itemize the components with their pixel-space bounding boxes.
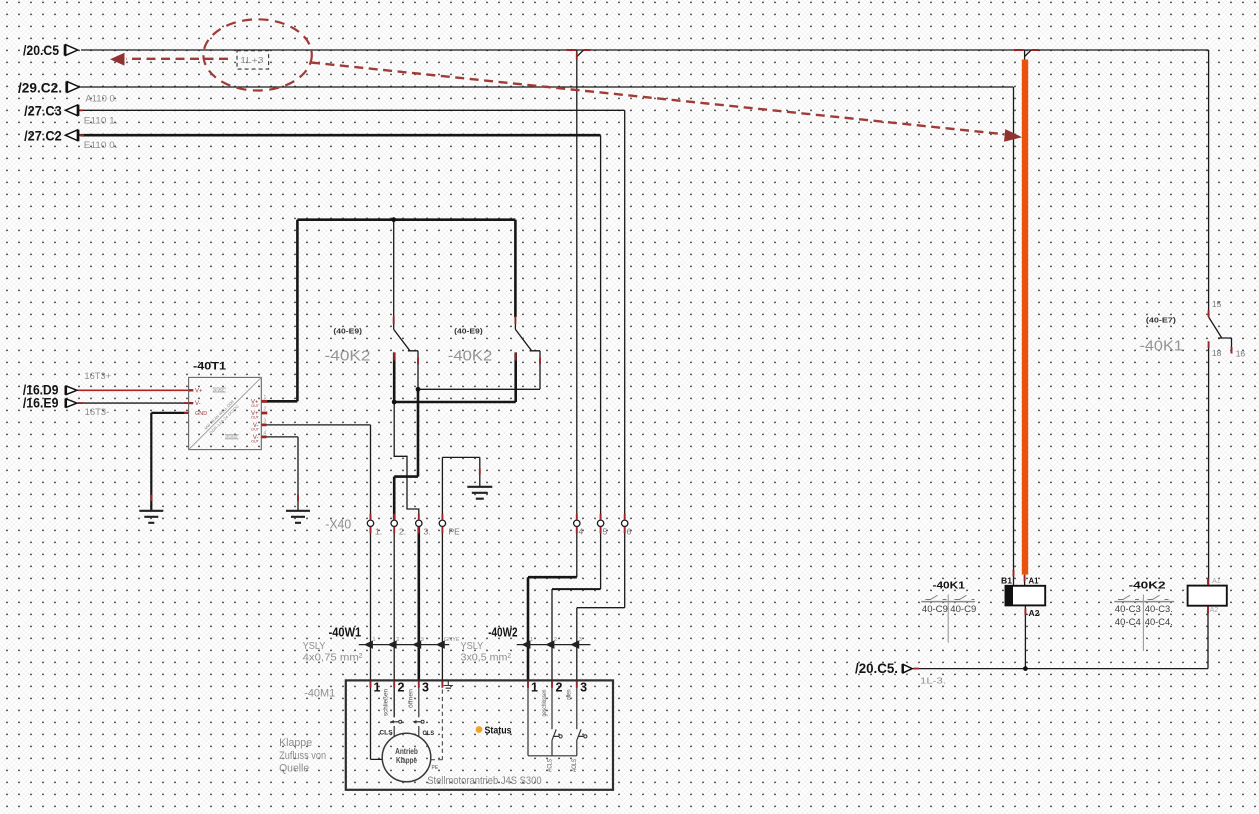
svg-text:16T3-: 16T3- <box>85 407 110 417</box>
svg-text:YSLY: YSLY <box>461 640 484 652</box>
svg-text:-40K2: -40K2 <box>1129 581 1167 592</box>
svg-text:24 VDC: 24 VDC <box>213 388 225 392</box>
svg-text:40-C3: 40-C3 <box>1115 604 1141 614</box>
svg-text:OUT: OUT <box>251 440 260 444</box>
svg-text:Klappe: Klappe <box>396 756 417 765</box>
svg-text:1: 1 <box>264 395 267 401</box>
svg-text:OUT: OUT <box>251 428 260 432</box>
svg-text:-40W1: -40W1 <box>329 626 362 640</box>
svg-text:40-C3.: 40-C3. <box>1145 604 1173 614</box>
svg-text:/27.C2: /27.C2 <box>24 127 62 143</box>
svg-text:A110 0.: A110 0. <box>85 93 117 103</box>
svg-text:Status: Status <box>485 726 512 737</box>
svg-text:YSLY: YSLY <box>303 640 326 652</box>
svg-text:(40-E9): (40-E9) <box>333 327 362 336</box>
svg-text:V-: V- <box>195 401 201 407</box>
svg-text:1L+3: 1L+3 <box>240 56 264 65</box>
svg-text:-40K2: -40K2 <box>325 348 371 365</box>
svg-text:4x0,75 mm²: 4x0,75 mm² <box>303 652 364 664</box>
svg-text:V+: V+ <box>195 388 203 394</box>
svg-text:-40K1: -40K1 <box>1140 337 1183 354</box>
svg-text:4: 4 <box>579 527 584 537</box>
svg-text:40-C9: 40-C9 <box>922 604 948 614</box>
svg-text:3: 3 <box>421 637 424 643</box>
svg-text:OUT: OUT <box>251 416 260 420</box>
svg-text:1: 1 <box>531 680 538 694</box>
svg-text:Antrieb: Antrieb <box>395 747 418 756</box>
svg-text:PE: PE <box>432 765 439 771</box>
svg-text:Zufluss von: Zufluss von <box>279 750 326 762</box>
svg-text:/20.C5.: /20.C5. <box>855 661 898 676</box>
svg-text:Stellmotorantrieb J4S S300: Stellmotorantrieb J4S S300 <box>427 775 541 787</box>
svg-text:2: 2 <box>556 681 563 695</box>
svg-text:2: 2 <box>398 681 405 695</box>
svg-text:16T3+: 16T3+ <box>84 371 111 381</box>
svg-text:/16.E9: /16.E9 <box>23 395 59 410</box>
svg-text:1L-3.: 1L-3. <box>920 675 946 685</box>
svg-text:-X40: -X40 <box>325 517 351 532</box>
svg-text:CLS: CLS <box>379 730 393 737</box>
svg-text:offen: offen <box>566 690 572 701</box>
svg-text:-40T1: -40T1 <box>193 360 226 372</box>
svg-text:1.: 1. <box>375 527 382 537</box>
svg-text:E110 0.: E110 0. <box>84 140 118 150</box>
svg-text:GND: GND <box>195 411 207 417</box>
svg-text:A2: A2 <box>1210 607 1219 614</box>
svg-text:3: 3 <box>579 637 582 643</box>
svg-text:A1: A1 <box>1212 578 1221 585</box>
svg-text:3: 3 <box>422 681 429 695</box>
svg-text:2: 2 <box>396 637 399 643</box>
svg-text:2.: 2. <box>399 527 406 537</box>
svg-text:15: 15 <box>1212 299 1222 309</box>
svg-text:Quelle: Quelle <box>279 763 309 775</box>
svg-text:2: 2 <box>264 407 267 413</box>
svg-text:24V 5A DC: 24V 5A DC <box>226 435 239 439</box>
svg-text:40-C9: 40-C9 <box>950 604 976 614</box>
svg-text:18: 18 <box>1212 348 1222 358</box>
svg-text:GNYE: GNYE <box>444 637 460 643</box>
svg-text:2: 2 <box>554 637 557 643</box>
svg-text:A1: A1 <box>1029 576 1039 586</box>
svg-text:PE: PE <box>449 527 461 537</box>
svg-text:-40W2: -40W2 <box>488 626 517 640</box>
svg-text:40-C4.: 40-C4. <box>1145 617 1173 627</box>
svg-text:öffnen: öffnen <box>409 689 415 708</box>
svg-text:OUT: OUT <box>251 404 260 408</box>
svg-text:B1: B1 <box>1001 576 1012 586</box>
svg-text:3: 3 <box>264 419 267 425</box>
svg-text:4: 4 <box>264 431 267 437</box>
svg-text:ACLS: ACLS <box>548 759 554 772</box>
svg-text:6: 6 <box>627 527 632 537</box>
svg-text:40-C4: 40-C4 <box>1115 617 1141 627</box>
svg-text:3.: 3. <box>424 527 431 537</box>
svg-text:/29.C2.: /29.C2. <box>18 79 62 95</box>
svg-text:E110 1.: E110 1. <box>84 116 118 126</box>
svg-text:-40M1: -40M1 <box>304 687 335 699</box>
svg-text:(40-E9): (40-E9) <box>454 327 483 336</box>
svg-text:-40K1: -40K1 <box>933 581 966 592</box>
svg-text:3x0,5 mm²: 3x0,5 mm² <box>461 652 512 664</box>
svg-text:geschlossen: geschlossen <box>542 690 548 717</box>
svg-text:A2: A2 <box>1029 608 1040 618</box>
svg-text:OLS: OLS <box>423 730 435 737</box>
svg-text:/27.C3: /27.C3 <box>24 102 62 118</box>
svg-text:/20.C5: /20.C5 <box>23 42 59 58</box>
svg-text:(40-E7): (40-E7) <box>1146 316 1177 325</box>
svg-text:AOLS: AOLS <box>572 759 578 772</box>
svg-text:1: 1 <box>373 637 376 643</box>
svg-text:1: 1 <box>374 680 381 694</box>
svg-text:16: 16 <box>1236 348 1246 358</box>
svg-text:1: 1 <box>530 637 533 643</box>
svg-text:5: 5 <box>603 527 608 537</box>
svg-text:schließen: schließen <box>384 689 390 716</box>
svg-text:-40K2: -40K2 <box>448 348 492 365</box>
svg-text:Klappe: Klappe <box>279 737 312 749</box>
svg-text:3: 3 <box>580 681 587 695</box>
